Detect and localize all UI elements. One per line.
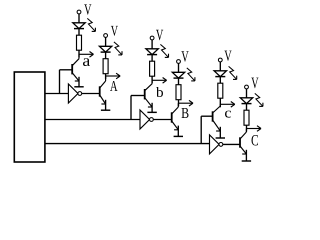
label V (6) xyxy=(251,78,258,89)
transistor Q2 collector xyxy=(100,76,106,88)
node label b xyxy=(156,87,163,97)
resistor R6 xyxy=(244,110,249,125)
node b output arrow xyxy=(152,78,167,84)
transistor Q6 base bar xyxy=(239,137,241,147)
transistor Q2 emitter xyxy=(100,95,106,104)
node label A xyxy=(110,81,117,91)
transistor Q3 collector xyxy=(145,80,152,90)
wire (inverter U6 output) xyxy=(223,143,240,145)
LED D6 light arrow xyxy=(255,93,263,106)
node a output arrow xyxy=(79,52,94,58)
IC U1 block xyxy=(14,72,45,162)
LED D6 xyxy=(240,98,252,104)
ground (Q3 emitter) xyxy=(147,103,156,113)
label V (3) xyxy=(156,30,163,40)
wire (U1 output 2 to inverter U3 input) xyxy=(45,119,140,121)
wire (1 anode) xyxy=(78,14,80,23)
wire (2 cathode to resistor) xyxy=(105,52,107,59)
transistor Q1 collector xyxy=(72,54,79,65)
wire (3 cathode to resistor) xyxy=(151,55,153,62)
wire (6 cathode to resistor) xyxy=(246,104,248,111)
resistor R1 xyxy=(77,35,82,50)
wire (resistor to collector node A) xyxy=(105,74,107,79)
LED D2 xyxy=(99,46,111,52)
node A output arrow xyxy=(106,73,121,79)
wire (5 anode) xyxy=(219,62,221,71)
label V (2) xyxy=(111,26,118,36)
wire (branch to Q5 base, vertical) xyxy=(200,116,202,143)
transistor Q5 collector xyxy=(213,104,221,113)
node c output arrow xyxy=(220,102,235,108)
ground (Q4 emitter) xyxy=(174,126,183,137)
wire (branch to Q5 base, horizontal) xyxy=(201,115,212,117)
transistor Q4 emitter xyxy=(172,121,179,130)
label V (4) xyxy=(181,51,188,61)
transistor Q1 base bar xyxy=(71,64,73,74)
transistor Q2 base bar xyxy=(99,86,101,96)
transistor Q6 emitter xyxy=(240,146,246,154)
wire (branch to Q1 base, vertical) xyxy=(59,70,61,94)
LED D4 light arrow xyxy=(187,68,195,81)
resistor R3 xyxy=(150,61,155,76)
transistor Q5 base bar xyxy=(212,111,214,121)
label V (1) xyxy=(84,4,91,14)
resistor R2 xyxy=(103,59,108,74)
node B output arrow xyxy=(179,100,194,106)
inverter U6 xyxy=(210,135,223,154)
power node V circle (4) xyxy=(177,60,181,64)
power node V circle (6) xyxy=(245,85,249,89)
wire (branch to Q3 base, horizontal) xyxy=(131,95,145,97)
wire (resistor to collector node B) xyxy=(178,100,180,107)
LED D1 light arrow xyxy=(87,18,95,31)
wire (U1 output 1 to inverter U2 input) xyxy=(45,93,68,95)
node label B xyxy=(182,108,189,118)
wire (5 cathode to resistor) xyxy=(219,77,221,84)
wire (U1 output 3 to inverter U4 input) xyxy=(45,143,210,145)
wire (branch to Q1 base, horizontal) xyxy=(60,69,73,71)
power node V circle (2) xyxy=(104,34,108,38)
transistor Q3 emitter xyxy=(145,98,152,107)
label V (5) xyxy=(224,51,231,61)
node C output arrow xyxy=(247,126,262,132)
wire (inverter U2 output) xyxy=(82,93,100,95)
wire (3 anode) xyxy=(151,40,153,49)
wire (resistor to collector node a) xyxy=(78,50,80,57)
LED D4 xyxy=(172,72,184,78)
resistor R4 xyxy=(176,85,181,100)
LED D5 xyxy=(214,71,226,77)
wire (2 anode) xyxy=(105,37,107,46)
wire (branch to Q3 base, vertical) xyxy=(130,96,132,120)
node label c xyxy=(225,111,231,118)
ground (Q2 emitter) xyxy=(101,100,110,110)
transistor Q3 base bar xyxy=(144,89,146,99)
inverter U4 xyxy=(140,110,153,129)
LED D2 light arrow xyxy=(114,42,122,55)
ground (Q5 emitter) xyxy=(216,127,225,138)
resistor R5 xyxy=(218,83,223,98)
wire (inverter U4 output) xyxy=(153,119,172,121)
inverter U2 xyxy=(68,84,81,103)
power node V circle (3) xyxy=(150,36,154,40)
power node V circle (1) xyxy=(77,10,81,14)
ground (Q1 emitter) xyxy=(74,77,83,87)
wire (4 anode) xyxy=(178,63,180,72)
wire (resistor to collector node b) xyxy=(151,76,153,83)
wire (4 cathode to resistor) xyxy=(178,78,180,85)
transistor Q1 emitter xyxy=(72,73,79,81)
LED D3 xyxy=(146,49,158,55)
wire (resistor to collector node C) xyxy=(246,125,248,131)
transistor Q4 collector xyxy=(172,103,179,114)
wire (1 cathode to resistor) xyxy=(78,29,80,36)
LED D3 light arrow xyxy=(160,44,168,57)
transistor Q4 base bar xyxy=(171,112,173,122)
LED D5 light arrow xyxy=(229,66,237,79)
transistor Q6 collector xyxy=(240,129,246,140)
node label a xyxy=(83,58,90,66)
node label C xyxy=(251,135,257,145)
power node V circle (5) xyxy=(218,58,222,62)
wire (6 anode) xyxy=(246,89,248,98)
ground (Q6 emitter) xyxy=(242,150,251,161)
LED D1 xyxy=(73,23,85,29)
transistor Q5 emitter xyxy=(213,120,221,131)
wire (resistor to collector node c) xyxy=(219,98,221,107)
